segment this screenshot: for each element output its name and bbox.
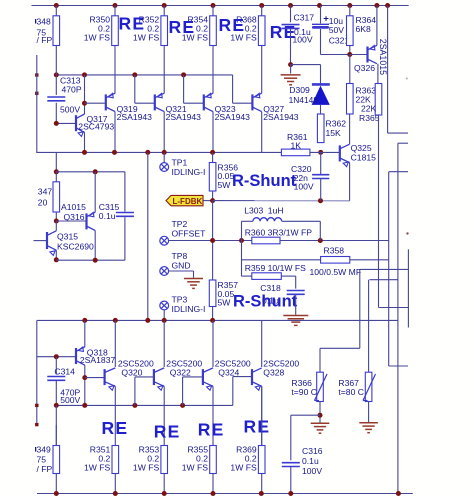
- node Q316 emitter riser: [93, 169, 98, 174]
- svg-text:5W: 5W: [218, 298, 232, 308]
- transistor Q320: [103, 369, 105, 385]
- wire top positive rail: [32, 5, 409, 7]
- transistor Q325 (C1815): [339, 145, 341, 161]
- transistor Q326 (2SA1015): [366, 47, 368, 63]
- wire lower output rail: [37, 319, 398, 321]
- wire D309 top run: [291, 64, 321, 66]
- resistor R357: [212, 241, 214, 281]
- resistor R347: [53, 182, 60, 212]
- junction output line: [239, 238, 244, 243]
- ground C317: [281, 74, 301, 76]
- wire R350 top lead: [114, 6, 116, 16]
- wire output line: [169, 240, 389, 242]
- wire PNP base rail: [56, 74, 232, 76]
- node Q317 riser: [82, 72, 87, 77]
- transistor Q323: [203, 94, 205, 110]
- junction lower rail: [82, 318, 87, 323]
- junction output line: [318, 238, 323, 243]
- svg-text:100V: 100V: [293, 34, 313, 44]
- node R347 top: [54, 169, 59, 174]
- wire R368 top lead: [261, 6, 263, 16]
- wire lower-left wrap: [36, 320, 38, 424]
- svg-text:1W FS: 1W FS: [84, 462, 111, 472]
- wire Q318 emitter up: [84, 320, 86, 347]
- capacitor C317: [282, 24, 300, 26]
- node Q318 rail: [82, 403, 87, 408]
- speck 2: [406, 78, 408, 80]
- transistor Q324: [202, 369, 204, 385]
- wire R364 bottom: [349, 46, 351, 55]
- node base drop 2: [181, 72, 186, 77]
- capacitor C314: [55, 357, 57, 375]
- wire Q323 emitter column: [212, 46, 214, 94]
- resistor R369: [258, 446, 265, 474]
- wire R359 branch: [241, 241, 243, 277]
- resistor R348: [53, 16, 60, 46]
- wire TP3 stub: [163, 310, 165, 321]
- svg-text:1W FS: 1W FS: [230, 462, 257, 472]
- junction bottom rail: [259, 491, 264, 496]
- wire Q328 collector column: [261, 320, 263, 367]
- testpoint TP8: [160, 267, 169, 276]
- wire R347 leads: [55, 172, 57, 182]
- thermistor R366: [317, 372, 324, 401]
- wire R366 net link: [360, 268, 409, 270]
- node Q318 base: [54, 354, 59, 359]
- svg-text:1W FS: 1W FS: [133, 32, 160, 42]
- ground R366: [311, 422, 330, 424]
- wire bus C bottom: [389, 365, 408, 367]
- wire C315 right vertical: [124, 172, 126, 212]
- svg-text:470P: 470P: [62, 85, 82, 95]
- transistor Q321: [154, 94, 156, 110]
- svg-text:2SA1943: 2SA1943: [117, 112, 153, 122]
- svg-text:1W FS: 1W FS: [133, 462, 160, 472]
- wire base drop 3: [232, 75, 234, 103]
- transistor Q319: [105, 94, 107, 110]
- wire mid vertical: [147, 152, 149, 320]
- wire gnd stub: [290, 65, 292, 74]
- junction on top rail: [288, 3, 293, 8]
- capacitor C313: [47, 96, 65, 98]
- wire base drop 1: [134, 75, 136, 103]
- stub mark left: [35, 92, 38, 95]
- resistor R349: [53, 446, 60, 474]
- svg-text:349: 349: [37, 445, 52, 455]
- resistor R362: [317, 114, 324, 143]
- speck 1: [406, 232, 408, 234]
- junction on top rail: [113, 3, 118, 8]
- wire riser2: [182, 377, 184, 406]
- wire R369 bottom lead: [261, 474, 263, 494]
- wire C317 bottom lead: [290, 29, 292, 65]
- resistor R359: [252, 273, 281, 280]
- junction bottom rail: [288, 491, 293, 496]
- wire C318 down: [295, 294, 297, 315]
- wire TP1 stub: [163, 152, 165, 162]
- thermistor R367: [368, 280, 370, 373]
- transistor Q316 (A1015): [85, 213, 87, 229]
- svg-text:TP2: TP2: [172, 219, 188, 229]
- node C314 rail: [54, 403, 59, 408]
- wire R366 top path: [359, 269, 361, 348]
- wire Q317 emitter down: [84, 132, 86, 152]
- junction on top rail: [162, 3, 167, 8]
- junction on top rail: [211, 3, 216, 8]
- label L-FDBK: [166, 195, 203, 205]
- wire bus A: [387, 6, 389, 134]
- wire Q322 collector column: [163, 320, 165, 367]
- resistor R356: [212, 152, 214, 162]
- wire lower base rail: [56, 404, 233, 406]
- wire R366 bottom: [319, 402, 321, 423]
- wire Q325 emitter: [349, 163, 351, 201]
- svg-text:Q326: Q326: [354, 63, 375, 73]
- wire D309 to R362: [320, 105, 322, 114]
- wire Q327 collector column: [261, 112, 263, 153]
- wire C313 top lead: [55, 75, 57, 95]
- svg-text:1N4148: 1N4148: [289, 95, 319, 105]
- svg-text:R-Shunt: R-Shunt: [232, 172, 297, 190]
- wire bus C top: [389, 171, 408, 173]
- svg-text:100V: 100V: [302, 466, 322, 476]
- svg-text:/ FP: / FP: [37, 464, 53, 474]
- svg-text:6K8: 6K8: [356, 24, 372, 34]
- wire Q327 emitter column: [261, 46, 263, 94]
- wire V1 bottom link: [379, 307, 409, 309]
- svg-text:Q315: Q315: [57, 231, 78, 241]
- svg-text:D309: D309: [289, 85, 310, 95]
- wire R349 leads: [55, 425, 57, 446]
- wire TP8 lead: [169, 270, 194, 272]
- svg-text:C318: C318: [260, 283, 281, 293]
- svg-text:0.1u: 0.1u: [302, 456, 319, 466]
- wire Q319 collector column: [114, 112, 116, 153]
- wire Q324 collector column: [212, 320, 214, 367]
- wire Q315 collector up: [55, 221, 57, 231]
- wire left vertical: [36, 55, 38, 152]
- wire upper output rail: [36, 151, 281, 153]
- node Q316 base: [54, 219, 59, 224]
- node Q315 emitter: [54, 257, 59, 262]
- node riser1: [132, 403, 137, 408]
- wire C320 top lead: [320, 152, 322, 174]
- junction on top rail: [385, 3, 390, 8]
- wire C315 bottom run: [56, 259, 125, 261]
- wire Q317 base: [56, 122, 76, 124]
- wire R354 top lead: [212, 6, 214, 16]
- wire Q318 base: [56, 356, 76, 358]
- wire C316 bottom: [290, 467, 292, 494]
- wire Q316 base: [56, 220, 86, 222]
- svg-text:Q325: Q325: [351, 143, 372, 153]
- wire R352 top lead: [163, 6, 165, 16]
- wire R348 bottom to base rail: [55, 46, 57, 75]
- transistor Q328: [251, 369, 253, 385]
- svg-text:2SC4793: 2SC4793: [78, 122, 114, 132]
- svg-text:2SA1943: 2SA1943: [166, 112, 202, 122]
- svg-text:L-FDBK: L-FDBK: [173, 197, 203, 206]
- wire C316 top path: [291, 414, 320, 416]
- wire Q324 emitter column: [212, 386, 214, 445]
- resistor R354: [210, 16, 217, 46]
- svg-text:1uH: 1uH: [268, 205, 284, 215]
- wire C320 bottom lead: [320, 179, 322, 201]
- transistor Q315 (KSC2690): [46, 232, 48, 249]
- wire Q323 collector column: [212, 112, 214, 153]
- wire feedback run: [213, 200, 350, 202]
- wire riser1: [134, 377, 136, 406]
- wire C317 top lead: [290, 6, 292, 23]
- transistor Q318 (2SA1837): [75, 348, 77, 364]
- junction lower rail: [113, 318, 118, 323]
- testpoint TP3: [160, 301, 169, 310]
- wire Q317 riser: [84, 75, 86, 103]
- junction bottom rail: [396, 491, 401, 496]
- wire R367 net link: [370, 279, 398, 281]
- wire Q319 emitter column: [114, 46, 116, 94]
- ground TP8: [184, 278, 203, 280]
- node C320 bottom: [318, 198, 323, 203]
- wire R349 top: [55, 405, 57, 445]
- capacitor C316: [282, 462, 300, 464]
- svg-text:KSC2690: KSC2690: [57, 241, 94, 251]
- wire Q315 emitter down: [55, 250, 57, 260]
- junction lower rail: [145, 318, 150, 323]
- wire Q319 base lead: [85, 102, 106, 104]
- resistor R363: [349, 55, 351, 84]
- svg-text:500V: 500V: [60, 395, 80, 405]
- svg-text:2SA1943: 2SA1943: [215, 112, 251, 122]
- svg-text:RE: RE: [244, 417, 271, 437]
- svg-text:R358: R358: [324, 245, 345, 255]
- svg-text:Q322: Q322: [170, 368, 191, 378]
- wire bus C vertical: [388, 172, 390, 366]
- svg-text:Q316: Q316: [64, 212, 85, 222]
- svg-text:RE: RE: [169, 17, 196, 37]
- resistor R361: [281, 149, 310, 156]
- junction upper rail: [82, 150, 87, 155]
- svg-text:Q320: Q320: [121, 368, 142, 378]
- svg-text:IDLING-I: IDLING-I: [172, 167, 206, 177]
- svg-text:TP1: TP1: [172, 158, 188, 168]
- resistor R368: [258, 16, 265, 46]
- resistor R358: [321, 257, 350, 264]
- junction output line: [210, 238, 215, 243]
- stub mark left upper: [35, 73, 38, 76]
- wire Q318 collector down: [84, 365, 86, 405]
- node Q325 base node: [318, 150, 323, 155]
- svg-text:20: 20: [38, 197, 48, 207]
- node C313/R348 base rail: [54, 72, 59, 77]
- wire V1 R365 lead: [378, 115, 380, 308]
- junction upper rail: [210, 150, 215, 155]
- wire Q321 collector column: [163, 112, 165, 153]
- diode D309 (1N4148): [312, 83, 330, 86]
- svg-text:347: 347: [38, 187, 53, 197]
- junction upper rail: [162, 150, 167, 155]
- svg-text:t=90 C: t=90 C: [291, 387, 317, 397]
- node Q317 collector: [82, 101, 87, 106]
- junction upper rail: [112, 150, 117, 155]
- wire R369 top lead: [261, 386, 263, 445]
- svg-text:0.1u: 0.1u: [99, 211, 116, 221]
- junction bottom rail: [211, 491, 216, 496]
- svg-text:R360 3R3/1W FP: R360 3R3/1W FP: [245, 227, 313, 237]
- svg-text:t=80 C: t=80 C: [338, 387, 364, 397]
- svg-text:R362: R362: [326, 118, 347, 128]
- capacitor C321 (electrolytic): [320, 6, 322, 24]
- junction bottom rail: [54, 491, 59, 496]
- wire R355 bottom lead: [212, 474, 214, 494]
- capacitor C320: [312, 174, 329, 176]
- svg-text:RE: RE: [119, 14, 146, 34]
- wire R358 left lead: [242, 259, 321, 261]
- svg-text:GND: GND: [172, 260, 191, 270]
- inductor L303: [241, 221, 243, 240]
- node riser2: [180, 403, 185, 408]
- svg-text:1W FS: 1W FS: [182, 462, 209, 472]
- svg-text:RE: RE: [154, 422, 181, 442]
- node R364 bottom: [347, 52, 352, 57]
- wire R351 bottom lead: [114, 474, 116, 494]
- svg-text:500V: 500V: [60, 104, 80, 114]
- resistor R352: [161, 16, 168, 46]
- wire Q326 emitter up: [376, 6, 378, 46]
- wire C313 bottom lead: [55, 103, 57, 124]
- wire Q320 base lead: [85, 377, 105, 379]
- svg-text:50V: 50V: [329, 25, 345, 35]
- wire Q320 collector column: [114, 320, 116, 367]
- junction lower rail: [210, 318, 215, 323]
- wire riser3: [232, 377, 234, 406]
- junction lower rail: [162, 318, 167, 323]
- junction bottom rail: [162, 491, 167, 496]
- svg-text:C317: C317: [294, 13, 315, 23]
- wire Q320 emitter column: [114, 386, 116, 445]
- svg-text:100V: 100V: [294, 182, 314, 192]
- wire bottom negative rail: [37, 493, 413, 495]
- svg-text:2SA1837: 2SA1837: [80, 355, 116, 365]
- svg-text:R365: R365: [359, 113, 380, 123]
- svg-text:C316: C316: [302, 446, 323, 456]
- svg-text:2SA1943: 2SA1943: [263, 112, 299, 122]
- wire R348 top lead: [55, 6, 57, 16]
- junction on top rail: [54, 3, 59, 8]
- wire Q321 emitter column: [163, 46, 165, 94]
- svg-text:15K: 15K: [326, 128, 342, 138]
- svg-text:Q328: Q328: [263, 368, 284, 378]
- svg-text:L303: L303: [244, 205, 263, 215]
- wire R358 right lead: [350, 259, 389, 261]
- svg-text:A1015: A1015: [61, 202, 86, 212]
- junction upper rail: [145, 150, 150, 155]
- svg-text:RE: RE: [102, 418, 129, 438]
- node Q318 collector: [82, 375, 87, 380]
- svg-text:IDLING-I: IDLING-I: [172, 304, 206, 314]
- svg-text:C1815: C1815: [351, 153, 377, 163]
- junction on top rail: [317, 3, 322, 8]
- svg-text:C314: C314: [54, 366, 75, 376]
- node R366 ground node: [318, 413, 323, 418]
- svg-text:348: 348: [37, 17, 52, 27]
- svg-text:1W FS: 1W FS: [84, 32, 111, 42]
- transistor Q322: [153, 369, 155, 385]
- svg-text:5W: 5W: [218, 180, 232, 190]
- junction on top rail: [259, 3, 264, 8]
- wire bus B: [398, 142, 408, 144]
- testpoint TP1: [160, 163, 169, 172]
- svg-text:0.1u: 0.1u: [262, 296, 279, 306]
- svg-text:1K: 1K: [291, 140, 302, 150]
- junction bottom rail: [113, 491, 118, 496]
- wire Q328 emitter column: [261, 386, 263, 445]
- resistor R365: [375, 84, 382, 116]
- wire E vertical: [407, 249, 409, 327]
- wire R347 node: [55, 152, 57, 171]
- wire Q322 emitter column: [163, 386, 165, 445]
- wire R359 to C318: [281, 275, 295, 277]
- wire Q325 collector: [349, 114, 351, 144]
- resistor R364: [349, 6, 351, 16]
- svg-text:OFFSET: OFFSET: [172, 229, 207, 239]
- svg-text:2SA1015: 2SA1015: [378, 39, 388, 75]
- wire R353 bottom lead: [163, 474, 165, 494]
- stub mark lower left: [35, 404, 38, 407]
- wire base drop 2: [183, 75, 185, 103]
- node Q316 collector join: [93, 258, 98, 263]
- ground C318: [283, 315, 308, 317]
- svg-text:R359 10/1W FS: R359 10/1W FS: [245, 263, 306, 273]
- wire Q315 base: [34, 240, 48, 242]
- node C317 ground node: [288, 62, 293, 67]
- junction on top rail: [347, 3, 352, 8]
- wire C315 top run: [56, 171, 125, 173]
- wire L-FDBK lead: [203, 200, 213, 202]
- transistor Q317: [75, 115, 77, 131]
- node L-FDBK: [210, 198, 215, 203]
- junction on top rail: [374, 3, 379, 8]
- svg-text:RE: RE: [198, 420, 225, 440]
- capacitor C315: [116, 212, 134, 214]
- resistor R360: [252, 237, 280, 244]
- node base drop 1: [132, 72, 137, 77]
- resistor R350: [112, 16, 119, 46]
- transistor Q327: [251, 94, 253, 110]
- svg-text:/ FP: / FP: [37, 35, 53, 45]
- wire R361 to Q325: [310, 151, 340, 153]
- wire Q326 base lead: [350, 54, 368, 56]
- testpoint TP2: [160, 236, 169, 245]
- node Q317 base: [54, 121, 59, 126]
- resistor R355: [210, 446, 217, 474]
- svg-text:RE: RE: [219, 15, 246, 35]
- wire Q316 emitter up: [94, 172, 96, 212]
- svg-text:100/0.5W MF: 100/0.5W MF: [310, 267, 362, 277]
- svg-text:75: 75: [37, 454, 47, 464]
- wire Q316 collector down: [94, 231, 96, 261]
- wire R367 bottom: [368, 402, 370, 423]
- resistor R353: [161, 446, 168, 474]
- resistor R351: [112, 446, 119, 474]
- wire R356 bottom to output: [212, 201, 214, 241]
- capacitor C318: [287, 290, 305, 292]
- wire Q317 collector riser: [84, 103, 86, 114]
- wire Q326 collector down: [377, 64, 379, 84]
- ground R367: [359, 422, 378, 424]
